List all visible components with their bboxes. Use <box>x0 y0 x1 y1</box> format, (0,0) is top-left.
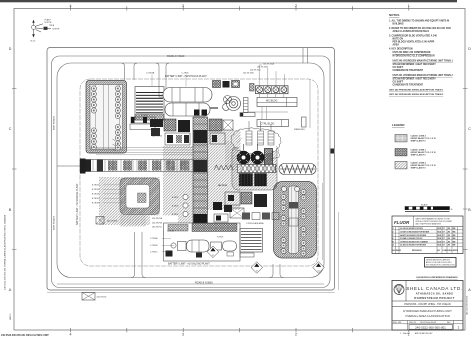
svg-text:C-TR05C: C-TR05C <box>150 252 158 254</box>
stack labels <box>243 63 275 75</box>
svg-text:C-TR05A: C-TR05A <box>150 237 158 240</box>
svg-text:STEAM REFORMER / HEAT RECOVERY: STEAM REFORMER / HEAT RECOVERY <box>393 78 437 81</box>
stamp box <box>425 258 457 268</box>
title block <box>392 281 463 331</box>
LEGEND block <box>392 123 436 170</box>
svg-text:UNIT 240 MISC 240 COMPRESSOR: UNIT 240 MISC 240 COMPRESSOR <box>393 51 431 54</box>
svg-text:240-5522-000-050-001: 240-5522-000-050-001 <box>420 322 436 324</box>
svg-text:DESIGN CONCEPT SHOWN IN THIS D: DESIGN CONCEPT SHOWN IN THIS DOCUMENT <box>416 221 453 223</box>
outer road rectangle <box>47 48 335 291</box>
svg-text:20 JAN 03 ISSUED FOR REVIEW: 20 JAN 03 ISSUED FOR REVIEW <box>400 244 426 247</box>
reactor column rect <box>265 149 273 169</box>
svg-text:10 FEB 03 ISSUED FOR COMMENT: 10 FEB 03 ISSUED FOR COMMENT <box>400 241 429 243</box>
big hatched block west <box>86 81 127 154</box>
svg-text:DWG. NO.: DWG. NO. <box>409 322 417 324</box>
svg-text:240-5522-000-050-001: 240-5522-000-050-001 <box>415 325 446 329</box>
svg-text:UNIT 242 PRESSURE SWING ADSORP: UNIT 242 PRESSURE SWING ADSORPTION TRAIN… <box>389 89 444 92</box>
vessel row NE <box>250 84 289 94</box>
svg-text:UNIT 241 HYDROGEN MANUFACTURIN: UNIT 241 HYDROGEN MANUFACTURING UNIT TRA… <box>393 74 454 77</box>
svg-text:21 MAR 03 ISSUED FOR IDC: 21 MAR 03 ISSUED FOR IDC <box>400 237 423 240</box>
CTRL BLDG <box>257 120 289 127</box>
east-rack details <box>214 165 233 170</box>
svg-text:4: 4 <box>70 333 72 337</box>
svg-text:APPR: APPR <box>453 249 459 252</box>
svg-text:B-TR05: B-TR05 <box>141 115 148 117</box>
svg-text:240-TR-T05D: 240-TR-T05D <box>243 73 255 75</box>
svg-text:SCALE: SCALE <box>421 203 428 206</box>
svg-text:1: 1 <box>393 235 394 237</box>
svg-text:240-TR-T05A: 240-TR-T05A <box>263 63 275 66</box>
svg-text:CONDENSATE TREATMENT: CONDENSATE TREATMENT <box>393 69 424 72</box>
svg-text:PER BLDGS VENTILATED A 240 APP: PER BLDGS VENTILATED A 240 APPR <box>393 41 435 44</box>
middle road rectangle <box>52 56 331 288</box>
svg-text:FLUOR: FLUOR <box>394 220 410 225</box>
svg-text:DATE: DATE <box>396 249 402 252</box>
hatch zone around reactors <box>225 141 273 170</box>
reactor circles <box>237 144 264 164</box>
diamond markers <box>207 246 324 273</box>
svg-text:PARSONS - KRUPP UHDE - TRI OCE: PARSONS - KRUPP UHDE - TRI OCEAN <box>404 303 451 306</box>
svg-text:TEMP CLASS T3: TEMP CLASS T3 <box>411 140 426 143</box>
furnace boxes dark <box>239 174 253 187</box>
svg-text:12 MAY 03 RE-ISSUED FOR REVIEW: 12 MAY 03 RE-ISSUED FOR REVIEW <box>400 231 429 234</box>
svg-text:HYDROGEN MANUFACTURING UNIT: HYDROGEN MANUFACTURING UNIT <box>403 309 452 313</box>
train labels left <box>150 237 158 254</box>
svg-text:04: 04 <box>318 271 320 273</box>
svg-text:DWG. SIZE: DWG. SIZE <box>393 322 401 324</box>
reactor plate <box>232 146 277 190</box>
flare blocks row <box>242 213 279 226</box>
small pier rect <box>302 117 307 127</box>
dark boxes above train <box>213 81 221 88</box>
svg-text:MATCH: MATCH <box>9 313 12 320</box>
svg-text:CTRL BLDG: CTRL BLDG <box>261 122 275 125</box>
svg-text:B-TR05G: B-TR05G <box>92 198 100 200</box>
SE hatched block <box>274 182 317 259</box>
svg-text:D: D <box>468 47 471 51</box>
svg-text:J-TR05 FLARE AREA: J-TR05 FLARE AREA <box>246 222 264 225</box>
extra bottom road line <box>57 283 324 285</box>
bottom-left scan text strip <box>1 334 49 337</box>
fin fan bottom <box>240 229 263 258</box>
right ditch line <box>338 212 340 290</box>
svg-text:OVERALL AREA CLASSIFICATION: OVERALL AREA CLASSIFICATION <box>405 314 449 318</box>
svg-text:NORTH: NORTH <box>45 22 52 24</box>
svg-text:REVISION: REVISION <box>412 250 422 252</box>
svg-text:C: C <box>468 127 471 131</box>
svg-text:3: 3 <box>182 4 184 8</box>
svg-text:EAST ROAD N: EAST ROAD N <box>53 215 56 230</box>
pipe rack horizontal <box>80 160 193 172</box>
svg-text:UNIT 243 PRESSURE SWING ADSORP: UNIT 243 PRESSURE SWING ADSORPTION TRAIN… <box>389 93 444 96</box>
svg-text:UNIT 240 HYDROGEN MANUFACTURIN: UNIT 240 HYDROGEN MANUFACTURING UNIT TRA… <box>393 60 454 63</box>
svg-text:240-TR-R05: 240-TR-R05 <box>107 221 117 223</box>
svg-text:CO SHIFT: CO SHIFT <box>393 67 404 69</box>
svg-text:B-TR05E: B-TR05E <box>92 189 100 191</box>
svg-text:ROAD B N 5800: ROAD B N 5800 <box>195 282 213 285</box>
pipe rack vertical <box>193 117 208 252</box>
piping MC-CTRL <box>248 94 288 120</box>
svg-text:NOTE ON: NOTE ON <box>393 39 404 41</box>
svg-text:3. COMPRESSOR BLDG VENTILATED: 3. COMPRESSOR BLDG VENTILATED A 240 <box>389 35 437 38</box>
svg-text:240-5522-000-050-001 OVERALL: 240-5522-000-050-001 OVERALL AREA CLASSI… <box>4 215 7 290</box>
svg-text:240-TR-P5C: 240-TR-P5C <box>152 227 163 229</box>
FLUOR revision table <box>392 216 463 254</box>
svg-text:BUILDING: BUILDING <box>393 24 404 26</box>
small circles column mid <box>183 194 188 216</box>
box below road <box>82 293 95 301</box>
svg-text:EAST ROAD N: EAST ROAD N <box>53 115 56 130</box>
svg-text:2: 2 <box>295 4 297 8</box>
svg-text:C-TR05A: C-TR05A <box>146 72 155 75</box>
svg-text:B-TR07: B-TR07 <box>172 214 178 216</box>
unit boundary NE <box>309 79 311 128</box>
svg-text:30 JUN 03 ISSUED FOR EDS: 30 JUN 03 ISSUED FOR EDS <box>400 228 424 230</box>
svg-text:B-TR05D: B-TR05D <box>92 185 100 187</box>
svg-text:MC BLDG: MC BLDG <box>266 100 277 103</box>
vessel circle with rings <box>227 97 241 111</box>
cooling cells <box>246 121 274 145</box>
svg-text:B-TR05F: B-TR05F <box>92 194 100 196</box>
svg-text:AREA: AREA <box>393 44 400 47</box>
svg-text:HYDROGEN RECYCLE COMPRESSOR: HYDROGEN RECYCLE COMPRESSOR <box>393 56 435 58</box>
reformer train top <box>163 88 229 117</box>
cooling tower cloud <box>231 128 281 160</box>
svg-text:1: 1 <box>408 4 410 8</box>
svg-text:TRUE: TRUE <box>49 25 55 27</box>
svg-text:240-TR-P5B: 240-TR-P5B <box>152 222 163 224</box>
svg-text:4. KEY DESCRIPTION: 4. KEY DESCRIPTION <box>389 48 413 51</box>
svg-text:TEMP CLASS T3: TEMP CLASS T3 <box>411 167 426 170</box>
north arrow <box>31 20 51 38</box>
svg-text:DOWNSTREAM PROJECT: DOWNSTREAM PROJECT <box>414 296 455 300</box>
svg-text:03: 03 <box>256 271 258 273</box>
svg-text:BATTERY LIMIT - H2 DIOXIDE PLA: BATTERY LIMIT - H2 DIOXIDE PLANT <box>76 183 79 225</box>
scale bar <box>405 203 453 211</box>
svg-text:SPARE PIER: SPARE PIER <box>294 128 305 131</box>
yard labels <box>92 185 100 205</box>
svg-text:H-TR05: H-TR05 <box>217 237 223 239</box>
road stub mid-top <box>156 63 169 97</box>
striped cooler block <box>130 87 164 138</box>
svg-text:1 400.000 APPLICATIO: 1 400.000 APPLICATION KEY <box>400 332 433 335</box>
west hatched yard <box>99 177 160 227</box>
svg-text:NOTES: NOTES <box>389 13 399 17</box>
svg-text:3: 3 <box>393 228 394 230</box>
svg-text:4: 4 <box>70 4 72 8</box>
svg-text:C-TR05: C-TR05 <box>182 73 190 75</box>
road stub top-left <box>122 63 138 80</box>
svg-text:1. ALL THE DIMENS TO SHOWN AND: 1. ALL THE DIMENS TO SHOWN AND EQUIPT UN… <box>389 20 449 23</box>
road gate mark <box>331 149 335 154</box>
svg-text:240-TR-T05B: 240-TR-T05B <box>257 67 269 69</box>
label patch SW of rack <box>150 216 178 232</box>
svg-text:ROAD A N 6100: ROAD A N 6100 <box>167 55 185 58</box>
svg-text:TEMP CLASS T3: TEMP CLASS T3 <box>411 154 426 157</box>
svg-text:2: 2 <box>393 232 394 234</box>
road stub top-right <box>303 48 308 63</box>
svg-text:2: 2 <box>295 333 297 337</box>
svg-text:240-TR-T05C: 240-TR-T05C <box>250 70 262 72</box>
stair column <box>240 98 255 117</box>
svg-text:240-5522-000-050-001: 240-5522-000-050-001 <box>466 296 468 315</box>
inner road rectangle <box>57 63 324 278</box>
svg-text:C: C <box>9 127 12 131</box>
svg-text:B-TR05H: B-TR05H <box>92 203 100 205</box>
scan bar top <box>0 0 457 2</box>
svg-text:240-TR-X05: 240-TR-X05 <box>97 297 107 299</box>
shell logo <box>394 285 404 295</box>
rack west endcap <box>80 159 86 174</box>
svg-text:2. REFER TO DOCUMENT NO 240-55: 2. REFER TO DOCUMENT NO 240-5522-000-010… <box>389 27 451 30</box>
NOTES block <box>389 13 453 96</box>
circle w cross NE <box>224 96 232 104</box>
svg-text:CO SHIFT: CO SHIFT <box>393 82 404 84</box>
svg-text:NOT ISSUED FOR CONSTRUCTION: NOT ISSUED FOR CONSTRUCTION <box>426 264 455 266</box>
svg-text:AREA CLASSIFICATION DETAILS: AREA CLASSIFICATION DETAILS <box>393 30 430 33</box>
svg-text:C-TR05B: C-TR05B <box>150 245 158 247</box>
svg-text:ATHABASCA OIL SANDS: ATHABASCA OIL SANDS <box>416 293 453 296</box>
road stub bottom-left <box>131 232 146 278</box>
MC BLDG <box>257 98 297 107</box>
svg-text:LEGEND: LEGEND <box>392 123 405 127</box>
pipelines west <box>90 148 193 155</box>
zigzag exchanger <box>279 164 316 175</box>
svg-text:04 APR 03 ISSUED FOR REVIEW: 04 APR 03 ISSUED FOR REVIEW <box>400 234 427 237</box>
svg-text:CONDENSATE TREATMENT: CONDENSATE TREATMENT <box>393 84 424 87</box>
svg-text:1: 1 <box>458 326 460 330</box>
svg-text:STEAM REFORMER / HEAT RECOVERY: STEAM REFORMER / HEAT RECOVERY <box>393 63 437 66</box>
compressor subplot box <box>164 223 241 261</box>
central hatch east of rack <box>208 130 241 210</box>
svg-text:ELEVATION & REFERENCE DRAWINGS: ELEVATION & REFERENCE DRAWINGS <box>417 276 459 279</box>
svg-text:240-TR-P5A: 240-TR-P5A <box>152 217 163 220</box>
equip box w label <box>96 217 104 225</box>
svg-text:NORTH: NORTH <box>53 28 60 30</box>
svg-text:D: D <box>9 47 12 51</box>
svg-text:3: 3 <box>182 333 184 337</box>
road stub bottom-right <box>270 264 284 278</box>
svg-text:0: 0 <box>393 238 394 240</box>
svg-text:SHELL CANADA LTD.: SHELL CANADA LTD. <box>406 286 463 291</box>
svg-text:B-TR06: B-TR06 <box>172 206 178 208</box>
svg-text:240-TR-05: 240-TR-05 <box>218 184 227 187</box>
central dense cluster <box>150 110 233 146</box>
battery limit fence <box>80 79 318 266</box>
central hatch west of rack <box>163 146 193 235</box>
truss bridge <box>238 165 278 173</box>
svg-text:B-TR05: B-TR05 <box>172 197 178 199</box>
east mid dense cluster <box>225 192 267 218</box>
svg-text:BATTERY LIMIT - H2 UNLOAD PLAN: BATTERY LIMIT - H2 UNLOAD PLANT <box>168 262 210 265</box>
svg-text:02: 02 <box>212 255 214 257</box>
